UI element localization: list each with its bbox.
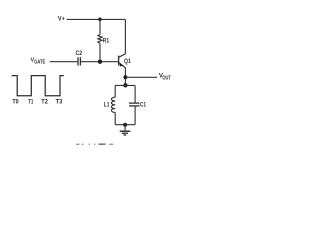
wire tank right drop <box>134 85 136 102</box>
wire collector vertical <box>124 19 126 54</box>
node label T3 <box>56 98 63 105</box>
node label T2 <box>41 98 48 105</box>
svg-text:C1: C1 <box>140 102 147 109</box>
resistor R1 <box>98 19 110 61</box>
inductor L1 <box>104 97 115 112</box>
wire from C2 to Q1 base <box>81 61 118 63</box>
svg-text:GATE: GATE <box>34 60 45 66</box>
svg-text:T1: T1 <box>28 98 34 105</box>
wire emitter vertical to output node <box>124 67 126 85</box>
capacitor C1 <box>129 102 146 109</box>
node junction dot tank bottom <box>123 123 127 127</box>
wire ground stub <box>124 125 126 131</box>
svg-text:V+: V+ <box>58 17 65 23</box>
node V+ supply label <box>58 17 65 23</box>
node junction dot top of R1 <box>98 18 102 22</box>
svg-text:T3: T3 <box>56 98 63 105</box>
wire tank left bottom <box>114 112 116 124</box>
wire tank left drop <box>114 85 116 97</box>
wire output to VOUT <box>125 76 157 78</box>
svg-text:OUT: OUT <box>162 75 171 81</box>
node junction dot R1 into base wire <box>98 60 102 64</box>
capacitor C2 <box>76 50 83 65</box>
node output junction dot <box>123 75 127 79</box>
node VGATE input label <box>31 58 46 66</box>
wire tank bottom rail <box>115 124 135 126</box>
wire from VGATE to C2 <box>50 61 78 63</box>
transistor Q1 <box>119 54 132 68</box>
svg-text:T2: T2 <box>41 98 48 105</box>
node VOUT label <box>159 74 171 82</box>
node label T1 <box>28 98 34 105</box>
svg-text:R1: R1 <box>103 37 110 44</box>
svg-text:L1: L1 <box>104 102 110 109</box>
node junction dot tank top <box>123 83 127 87</box>
svg-text:Q1: Q1 <box>124 59 131 65</box>
caption text fragment clipped at bottom edge <box>76 143 113 145</box>
square wave gate drive waveform <box>12 76 64 96</box>
wire tank right bottom <box>134 106 136 124</box>
wire top rail from V+ to collector <box>67 18 126 20</box>
svg-text:C2: C2 <box>76 50 83 57</box>
wire tank top rail <box>115 84 135 86</box>
ground <box>120 131 131 135</box>
svg-text:T0: T0 <box>12 98 19 105</box>
node label T0 <box>12 98 19 105</box>
